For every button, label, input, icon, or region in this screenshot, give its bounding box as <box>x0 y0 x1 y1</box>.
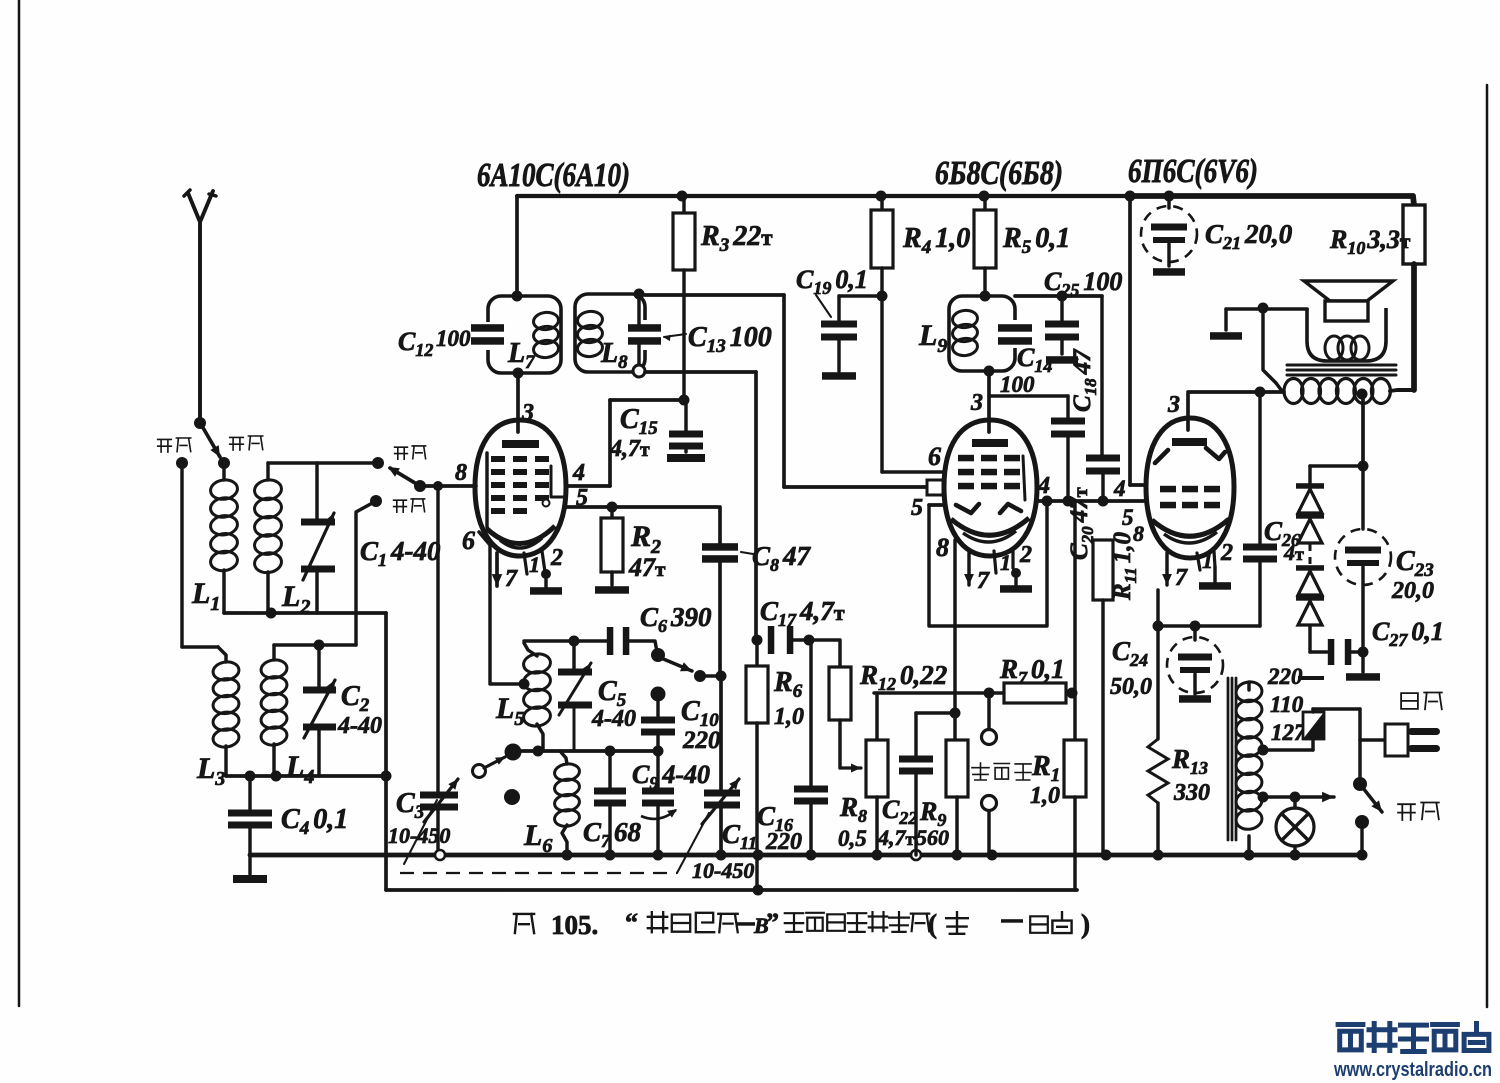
tube V3 pin3 wire <box>1186 394 1190 430</box>
svg-text:7: 7 <box>505 566 518 592</box>
svg-text:1,0: 1,0 <box>1030 783 1060 809</box>
capacitor C19 0,1 <box>839 294 882 297</box>
svg-text:8: 8 <box>936 533 949 562</box>
oscillator coil L5 <box>524 643 537 656</box>
S1 contact 長波 <box>176 457 188 469</box>
capacitor C8 47 <box>702 543 738 551</box>
svg-text:5: 5 <box>911 495 923 521</box>
wire L4 top bus y645 <box>274 643 356 646</box>
oscillator coil L6 <box>560 751 567 764</box>
ground under C27 <box>1361 652 1364 672</box>
svg-text:20,0: 20,0 <box>1391 578 1434 604</box>
svg-text:2: 2 <box>1220 540 1233 566</box>
resistor R2 47T <box>607 502 618 513</box>
diode D2 <box>1296 513 1324 519</box>
resistor R12 0,22 <box>809 640 840 667</box>
capacitor C25 100 <box>1060 296 1063 322</box>
svg-text:330: 330 <box>1173 780 1210 806</box>
page border right <box>1486 85 1489 1007</box>
output transformer primary winding <box>1276 383 1282 391</box>
coil L3 <box>218 647 226 662</box>
tube V1 pin4 line <box>566 484 610 488</box>
wire S2 blade to tube1 pin8 <box>420 484 476 488</box>
potentiometer R8 0,5 <box>875 693 878 740</box>
svg-text:110: 110 <box>1270 692 1304 717</box>
tube V2 pin4 line to V3 pin5 <box>1037 499 1146 503</box>
svg-text:100: 100 <box>436 326 471 351</box>
wire V1 pin4 up and over <box>608 400 612 486</box>
diode D4 <box>1296 595 1324 601</box>
wire top bus to V3 pin4 <box>1125 191 1136 202</box>
resistor R4 1,0 <box>876 191 887 202</box>
svg-text:6: 6 <box>462 526 475 555</box>
tube V2 grid rail <box>1023 456 1025 500</box>
wire L8 bottom to C17 <box>645 370 756 374</box>
band switch S1 blade <box>202 426 220 457</box>
osc switch contact <box>694 670 706 682</box>
wire L8 top to V2 grid <box>645 293 784 297</box>
wire R4 to V2 pin6 <box>880 296 883 472</box>
coil L1 <box>222 463 225 480</box>
wire S2 long-wave contact down <box>356 501 376 645</box>
tube V3 pin7 cathode <box>1165 553 1168 585</box>
IF transformer coil L9 <box>949 296 1015 371</box>
svg-text:220: 220 <box>682 727 721 754</box>
svg-text:6Б8С(6Б8): 6Б8С(6Б8) <box>935 155 1063 192</box>
coil L4 <box>272 645 275 660</box>
pickup jack terminals <box>987 693 990 729</box>
S2 contact 長波 <box>370 495 382 507</box>
electrolytic C23 20,0 <box>1361 466 1364 529</box>
wire L5 top line to C6 <box>524 639 607 642</box>
svg-text:7: 7 <box>977 568 990 594</box>
tube V2 grid dashes <box>958 455 974 462</box>
wire cathode bus y626 <box>1158 624 1260 627</box>
resistor R11 1,0 (vertical label) <box>1093 540 1113 600</box>
gang link dashed line <box>400 872 677 874</box>
rectifier feed <box>1310 464 1363 467</box>
ground under C4 <box>248 855 251 874</box>
wire bus y776 <box>226 774 386 778</box>
capacitor C6 390 <box>607 627 614 655</box>
capacitor C16 220 <box>809 640 812 787</box>
svg-text:6П6С(6V6): 6П6С(6V6) <box>1128 153 1258 190</box>
tube V2 top cap <box>972 439 1008 447</box>
svg-text:7: 7 <box>1175 565 1188 591</box>
svg-text:C6390: C6390 <box>640 602 712 636</box>
tube V1 grid dashes <box>491 456 505 462</box>
svg-text:8: 8 <box>455 460 467 486</box>
power transformer core <box>1227 678 1230 840</box>
resistor R9 560 <box>953 713 956 740</box>
wire B+ top bus <box>517 194 1132 198</box>
svg-text:4-40: 4-40 <box>337 713 382 739</box>
svg-text:6: 6 <box>928 442 941 471</box>
speaker cone <box>1304 281 1393 301</box>
resistor R10 3,3T <box>1413 196 1414 205</box>
diode D1 <box>1296 483 1324 489</box>
tube V1 pin5 line <box>566 505 718 509</box>
variable capacitor C3 10-450 <box>420 792 458 799</box>
resistor R3 22T <box>677 191 688 202</box>
wire L7 feed <box>515 196 519 296</box>
svg-text:47т: 47т <box>628 553 666 582</box>
svg-text:127: 127 <box>1271 720 1307 745</box>
antenna <box>188 193 200 423</box>
power switch <box>1353 777 1367 791</box>
tube V1 pin7 arrow <box>495 553 499 586</box>
capacitor C7 68 <box>608 751 611 789</box>
tube V2 grid pad <box>927 480 943 495</box>
resistor R7 0,1 (horizontal) <box>1004 683 1066 703</box>
tube V3 cathode arcs <box>1152 519 1229 536</box>
watermark crystalradio <box>1338 1025 1363 1050</box>
tube V3 top cap <box>1172 438 1207 446</box>
wire AVC line y693 <box>874 691 1004 694</box>
tube V3 grid dashes <box>1160 486 1176 493</box>
svg-text:8: 8 <box>1133 521 1144 546</box>
wire left vertical from 長波 contact <box>180 463 183 647</box>
svg-text:”: ” <box>766 908 779 937</box>
svg-text:C94-40: C94-40 <box>632 760 710 793</box>
wire lower bus y890 <box>386 888 1077 892</box>
speaker branch down <box>1263 308 1276 383</box>
svg-text:560: 560 <box>916 825 949 850</box>
svg-text:C40,1: C40,1 <box>281 804 348 839</box>
IF transformer coil L8 <box>575 294 645 372</box>
tube V1 6A10C envelope <box>475 420 566 556</box>
fuse <box>1311 738 1314 750</box>
svg-text:C25100: C25100 <box>1044 267 1122 300</box>
wire L2 top to C1 <box>268 461 378 464</box>
S1 contact 中波 <box>218 457 230 469</box>
mains plug <box>1358 709 1361 740</box>
svg-text:6А10С(6А10): 6А10С(6А10) <box>477 157 630 194</box>
svg-text:5: 5 <box>1122 505 1134 530</box>
coil L2 <box>266 463 269 480</box>
svg-text:R50,1: R50,1 <box>1002 223 1070 258</box>
wire oscillator bus y751 <box>513 749 660 753</box>
tube V1 top cap electrode <box>502 440 539 448</box>
resistor R1 1,0 <box>1073 501 1076 693</box>
svg-text:1: 1 <box>529 552 540 577</box>
svg-text:100: 100 <box>1000 372 1035 397</box>
svg-text:105.: 105. <box>551 910 598 940</box>
wire V2 plate to C18 <box>989 394 1068 397</box>
transformer core laminations <box>1287 364 1396 367</box>
svg-text:R41,0: R41,0 <box>902 223 970 258</box>
tube V1 pin6 wire to oscillator tap <box>479 532 522 684</box>
svg-text:4,7т: 4,7т <box>609 436 650 462</box>
tube V2 pin5 line <box>929 503 944 507</box>
S2 contact 中波 (osc grid switch) <box>372 457 384 469</box>
svg-text:(: ( <box>928 909 937 939</box>
tube V2 diode plates <box>956 504 979 513</box>
tap to fuse <box>1258 745 1269 756</box>
IF transformer coil L7 <box>488 296 561 373</box>
capacitor C18 47 (vertical label) <box>1051 418 1085 425</box>
B+ tap to rectifier <box>1357 389 1368 400</box>
svg-text:C14-40: C14-40 <box>360 536 441 570</box>
capacitor C22 4,7T <box>916 711 955 714</box>
speaker voice coil box <box>1325 301 1368 321</box>
trimmer capacitor C2 4-40 <box>317 645 320 690</box>
tube V3 6P6C envelope <box>1146 418 1234 558</box>
capacitor C27 0,1 <box>1310 650 1327 653</box>
node antenna switch junction <box>194 417 206 429</box>
trimmer capacitor C1 4-40 <box>315 463 318 520</box>
wire L9 top to corner x1102 <box>1015 294 1102 298</box>
tube V2 cathode box <box>929 501 1047 626</box>
pointer line C3 <box>404 800 437 864</box>
tube V1 cathode arcs <box>486 526 555 544</box>
tube V2 pin7 arrow <box>967 553 970 585</box>
svg-text:220: 220 <box>1267 664 1303 689</box>
tube V1 pins 1 2 to ground <box>524 553 527 574</box>
capacitor C10 220 terminal <box>651 687 666 702</box>
capacitor C20 47T <box>1086 455 1120 462</box>
svg-text:R103,3т: R103,3т <box>1329 225 1411 258</box>
capacitor C17 4,7T <box>752 635 763 646</box>
capacitor C26 4T <box>1255 387 1266 398</box>
tube V1 grid side rails <box>485 453 488 527</box>
cathode junction <box>950 708 961 719</box>
svg-text:): ) <box>1081 909 1090 939</box>
svg-text:www.crystalradio.cn: www.crystalradio.cn <box>1333 1059 1492 1081</box>
svg-text:C2120,0: C2120,0 <box>1205 219 1293 253</box>
capacitor C15 4,7T <box>684 400 687 432</box>
electrolytic C24 50,0 <box>1193 626 1196 640</box>
resistor R6 1,0 <box>755 640 758 666</box>
variable capacitor C11 10-450 <box>719 676 723 791</box>
tube V2 cathode arcs <box>951 518 1029 535</box>
S2 blade <box>390 468 420 486</box>
osc band switch contacts <box>505 744 522 761</box>
svg-text:3: 3 <box>970 390 983 416</box>
resistor R13 330 (zigzag) <box>1156 626 1159 739</box>
wire pin5 corner down to C8 <box>718 507 722 544</box>
tube V3 beam plates <box>1155 450 1168 463</box>
tube V2 pin8 wire <box>953 540 956 713</box>
speaker ground branch <box>1226 307 1307 310</box>
svg-text:4: 4 <box>1037 473 1050 499</box>
svg-text:10-450: 10-450 <box>692 858 754 883</box>
svg-text:2: 2 <box>1019 542 1032 568</box>
svg-text:4-40: 4-40 <box>591 706 636 732</box>
pilot lamp <box>1258 792 1269 803</box>
svg-text:4: 4 <box>1113 476 1126 501</box>
svg-text:1,0: 1,0 <box>774 704 804 730</box>
trimmer C5 4-40 <box>572 641 575 670</box>
svg-text:50,0: 50,0 <box>1110 674 1152 700</box>
capacitor C14 100 <box>998 324 1032 332</box>
trimmer C9 4-40 <box>656 751 659 789</box>
tube V1 pin3 wire from L7 <box>516 374 520 432</box>
svg-text:0,5: 0,5 <box>838 826 867 851</box>
svg-text:C174,7т: C174,7т <box>760 596 845 630</box>
capacitor C13 100 <box>637 296 640 326</box>
tube V2 pins 1 2 ground <box>994 551 996 573</box>
tube V3 pins 1 2 ground <box>1197 553 1200 570</box>
power transformer winding <box>1247 682 1250 690</box>
tube V2 6B8C envelope <box>944 420 1037 556</box>
svg-text:3: 3 <box>521 400 534 426</box>
wire tuned bus y613 <box>224 611 386 615</box>
svg-text:4,7т: 4,7т <box>877 825 915 850</box>
oscillator switch blade <box>651 648 665 662</box>
svg-text:220: 220 <box>765 829 802 855</box>
electrolytic C21 20,0 <box>1164 191 1175 202</box>
svg-text:4: 4 <box>572 460 585 486</box>
resistor R5 0,1 <box>979 191 990 202</box>
wire corner x1102 down to C20 <box>1100 296 1103 456</box>
mains taps 220 110 127 <box>1298 676 1324 680</box>
svg-text:1: 1 <box>1000 550 1011 575</box>
svg-text:5: 5 <box>576 485 588 511</box>
capacitor C12 100 <box>471 324 504 332</box>
page border left <box>18 0 21 1006</box>
svg-text:C13100: C13100 <box>688 322 772 357</box>
diode D3 <box>1296 565 1324 571</box>
wire main ground bus y855 <box>250 853 1362 858</box>
svg-text:2: 2 <box>550 545 563 571</box>
svg-text:1: 1 <box>1202 548 1213 573</box>
svg-text:“: “ <box>625 908 638 937</box>
wire grid line down to C3 <box>436 486 439 793</box>
output transformer secondary box <box>1307 308 1386 361</box>
svg-text:R120,22: R120,22 <box>859 660 947 694</box>
wire V3 plate line <box>1188 390 1284 394</box>
wire right vertical x386 <box>384 613 388 890</box>
capacitor C4 0,1 <box>248 776 251 812</box>
svg-text:R70,1: R70,1 <box>999 654 1065 688</box>
caption 圖 105 <box>514 914 534 933</box>
tube V2 pin3 wire <box>984 366 995 377</box>
svg-text:3: 3 <box>1167 392 1180 418</box>
